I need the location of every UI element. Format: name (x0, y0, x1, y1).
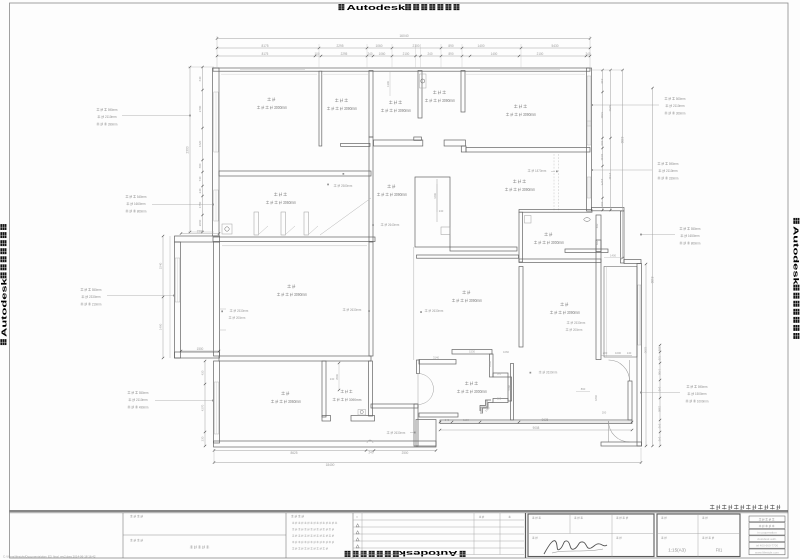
svg-text:1000mm: 1000mm (697, 399, 709, 403)
extension lines above wall at bath2 (415, 44, 417, 68)
dim right lower x646 (645, 264, 647, 446)
room label: 客厅 (287, 284, 295, 288)
window annotation 窗高2110mm (97, 108, 118, 112)
svg-text:210mm: 210mm (92, 302, 102, 306)
svg-text:C:/Users/lifestyle/Documents/p: C:/Users/lifestyle/Documents/plan_E3_fin… (3, 555, 96, 559)
dim extension verticals top (318, 44, 320, 68)
svg-text:5430: 5430 (551, 44, 558, 48)
scale value (668, 548, 686, 553)
svg-text:240: 240 (330, 377, 335, 381)
svg-text:800mm: 800mm (137, 209, 147, 213)
svg-text:3000mm: 3000mm (474, 389, 488, 394)
wall: master bedroom / cloakroom1 divider (319, 71, 322, 146)
svg-text:1060: 1060 (503, 350, 509, 354)
svg-text:550mm: 550mm (691, 227, 701, 231)
svg-text:1660mm: 1660mm (134, 202, 146, 206)
dim bottom right section chain (440, 421, 632, 423)
svg-text:3090mm: 3090mm (523, 112, 537, 117)
svg-text:3090mm: 3090mm (349, 397, 362, 402)
svg-text:3500: 3500 (335, 374, 339, 380)
svg-text:890: 890 (448, 44, 453, 48)
title block top border (10, 510, 789, 512)
svg-text:2100: 2100 (412, 44, 419, 48)
room label: 主卧 (267, 97, 275, 101)
design notes header (291, 515, 304, 518)
svg-text:8100: 8100 (650, 277, 654, 284)
room label: 走廊 (387, 184, 395, 188)
room label: 电梯厅 (465, 381, 478, 385)
svg-text:1530: 1530 (469, 349, 475, 353)
wall: chinese kitchen right (596, 215, 601, 252)
svg-text:800mm: 800mm (691, 241, 701, 245)
stall door diagonal 1 (259, 226, 268, 234)
svg-text:400: 400 (595, 223, 599, 228)
dim left guest bed chain (204, 361, 206, 446)
svg-text:2295: 2295 (336, 44, 343, 48)
svg-text:3000mm: 3000mm (274, 105, 288, 110)
beam label 梁高1870mm (528, 169, 547, 173)
svg-text:1500: 1500 (197, 347, 204, 351)
svg-text:2530mm: 2530mm (237, 309, 248, 313)
svg-text:440: 440 (600, 79, 604, 84)
dim bottom right 9008 (440, 429, 632, 431)
wall: balcony left exterior (175, 242, 181, 358)
bottom wall arc bump (367, 440, 373, 443)
window annotation 窗高2110mm (128, 391, 149, 395)
svg-text:2360: 2360 (658, 406, 662, 412)
design notes paragraph (292, 522, 337, 524)
window annotation 窗高1650mm (680, 227, 701, 231)
door arc: bottom right exit (609, 421, 630, 442)
svg-text:1650mm: 1650mm (688, 234, 700, 238)
window: top wall daughter room (480, 69, 560, 71)
wall: living room left exterior (214, 242, 220, 356)
wall: bath3 bottom segment (351, 416, 375, 422)
svg-text:3090mm: 3090mm (442, 98, 456, 103)
wall: zigzag vertical 1 (490, 354, 494, 377)
title block cell: design unit (130, 515, 143, 518)
dim right lower x652 8100 (652, 88, 654, 446)
window: left wall upper (214, 92, 218, 152)
svg-text:490mm: 490mm (139, 405, 149, 409)
beam label 梁高2630mm (425, 309, 444, 313)
wall: balcony top (175, 236, 220, 242)
door label balcony (230, 309, 249, 313)
svg-text:2330mm: 2330mm (89, 295, 101, 299)
svg-text:890: 890 (449, 52, 454, 56)
dim chain top B (217, 55, 590, 57)
svg-text:3300: 3300 (600, 112, 604, 119)
svg-text:1040: 1040 (600, 154, 604, 161)
wall: bath3 right (369, 361, 373, 416)
svg-text:1750: 1750 (198, 202, 202, 209)
watermark top: Autodesk educational banner (338, 3, 459, 12)
svg-text:1000: 1000 (615, 351, 621, 355)
door arc: west kitchen east door (609, 360, 630, 381)
wall: kitchen lower divider to dining (519, 259, 601, 263)
svg-text:200: 200 (602, 411, 607, 415)
beam label 梁高2640mm (381, 223, 400, 227)
dim interior shaft 4200 (436, 184, 438, 212)
svg-text:240: 240 (368, 52, 373, 56)
svg-text:400: 400 (600, 202, 604, 207)
wall: dining top (417, 255, 519, 258)
wall: zigzag horizontal right (493, 373, 508, 377)
dim chain top A (217, 47, 590, 49)
title block divider 2 (285, 513, 287, 558)
wall: guest/bath3 divider (322, 361, 326, 417)
svg-text:tel 400-660-7700: tel 400-660-7700 (756, 544, 779, 548)
tiny plot stamp bottom left (3, 555, 96, 559)
svg-text:8175: 8175 (262, 52, 269, 56)
dim right chain x610 (610, 70, 612, 210)
wall: guest bedroom left exterior (214, 361, 220, 443)
wall: elevator hall left (414, 404, 418, 446)
title block divider 1 (122, 513, 124, 558)
svg-text:540mm: 540mm (137, 195, 147, 199)
svg-text:2110mm: 2110mm (673, 104, 685, 108)
svg-text:6300: 6300 (620, 137, 624, 144)
svg-text:550mm: 550mm (92, 288, 102, 292)
beam label 梁高2630mm (343, 308, 362, 312)
stall door diagonal 2 (309, 226, 318, 234)
room label: 衣帽间 (433, 90, 446, 94)
wall: west kitchen right wall & door (596, 240, 601, 360)
svg-text:4270: 4270 (201, 405, 205, 412)
svg-text:1300: 1300 (386, 81, 390, 87)
svg-text:240: 240 (586, 52, 591, 56)
dim interior bath2 vertical (389, 72, 391, 96)
wall: balcony bottom (175, 352, 220, 358)
bay terrace strip outline (604, 267, 637, 358)
sheet number value (716, 548, 723, 553)
copyright text above title block (710, 505, 780, 510)
svg-text:3060mm: 3060mm (288, 399, 302, 404)
wall: dining bottom zigzag 1 (419, 360, 456, 365)
dim balcony width 1500 top (181, 233, 219, 235)
dim bottom chain left section (214, 450, 436, 452)
svg-text:2500: 2500 (402, 451, 409, 455)
svg-text:330mm: 330mm (669, 176, 679, 180)
svg-text:3090mm: 3090mm (394, 192, 408, 197)
wall: bath3 hook bottom-left (322, 416, 331, 422)
dim interior 3500 bath3 (338, 363, 340, 390)
svg-text:2700: 2700 (198, 106, 202, 113)
svg-text:3090mm: 3090mm (567, 310, 581, 315)
svg-text:1:15(A3): 1:15(A3) (668, 548, 686, 553)
wall: far right exterior lower (637, 264, 642, 447)
svg-text:200mm: 200mm (573, 328, 582, 332)
svg-text:2110mm: 2110mm (666, 169, 678, 173)
svg-text:2295: 2295 (341, 52, 348, 56)
svg-text:1400: 1400 (658, 369, 662, 375)
svg-text:1100: 1100 (463, 418, 469, 422)
svg-text:2630mm: 2630mm (546, 371, 557, 375)
right info stack boxes (749, 516, 785, 522)
svg-text:240: 240 (428, 52, 433, 56)
svg-text:1460: 1460 (159, 324, 163, 331)
window annotation 窗高2110mm (658, 162, 679, 166)
wall: elevator hall bottom (419, 413, 458, 417)
svg-text:540: 540 (658, 437, 662, 442)
svg-text:230: 230 (201, 436, 205, 441)
svg-text:Autodesk: Autodesk (792, 226, 800, 286)
svg-text:18400: 18400 (326, 463, 335, 467)
door label west kitchen (567, 321, 586, 325)
room label: 卫生间 (341, 390, 353, 393)
svg-text:4200: 4200 (433, 193, 437, 199)
title block drawing name (190, 545, 209, 548)
svg-text:2630mm: 2630mm (394, 431, 405, 435)
svg-text:Autodesk: Autodesk (398, 549, 458, 558)
svg-text:1400: 1400 (610, 253, 616, 257)
wall: top exterior (213, 68, 590, 71)
svg-text:3180: 3180 (508, 385, 512, 391)
wall: dining zigzag upper (452, 350, 492, 355)
dim bottom overall 18400 (214, 462, 641, 464)
fixture: kitchen circle (584, 218, 590, 222)
svg-text:500mm: 500mm (676, 97, 686, 101)
svg-text:740: 740 (198, 176, 202, 181)
wall: corridor bottom segment B (444, 140, 465, 146)
wall: cloakroom2 bottom segment A (374, 140, 423, 146)
wall: cloakroom1 bottom (341, 143, 370, 146)
window: guest bedroom left (214, 382, 218, 434)
svg-text:2100: 2100 (403, 52, 410, 56)
wall: right exterior upper (587, 68, 592, 211)
svg-text:in cooperation: in cooperation (757, 531, 777, 535)
wall: zigzag bottom步 (493, 399, 508, 403)
revision table (353, 519, 524, 521)
window annotation 窗高1660mm (126, 195, 147, 199)
wall: bottom-right lower wall (601, 442, 642, 446)
wall: bay step horizontal (624, 260, 641, 264)
svg-text:590mm: 590mm (698, 385, 708, 389)
svg-text:1060: 1060 (375, 44, 382, 48)
svg-text:2630mm: 2630mm (432, 309, 443, 313)
dim west kitchen 890 (576, 391, 590, 393)
dim small 200 1000 140 labels (601, 355, 632, 357)
window annotation 窗高1500mm (687, 385, 708, 389)
svg-text:200mm: 200mm (236, 316, 245, 320)
wall: bottom exterior left section (214, 441, 437, 447)
svg-text:1870mm: 1870mm (535, 169, 546, 173)
window: balcony left wall (175, 258, 180, 302)
wall: lounge bottom west part (450, 247, 517, 251)
svg-text:420: 420 (201, 370, 205, 375)
wall: right section bottom (440, 420, 632, 424)
svg-text:1500: 1500 (197, 230, 204, 234)
toilet stall partition 3 (304, 212, 309, 235)
svg-text:3090mm: 3090mm (398, 108, 412, 113)
wall: dining right divider (519, 267, 523, 348)
svg-text:1840: 1840 (594, 395, 598, 401)
svg-text:www.lifestyle.com: www.lifestyle.com (755, 550, 780, 554)
svg-text:890: 890 (581, 387, 586, 391)
wall: cloakroom2 / daughter room divider (461, 71, 465, 113)
svg-text:590mm: 590mm (108, 108, 118, 112)
wall: corridor left (below bath2) (369, 137, 373, 242)
svg-text:390mm: 390mm (108, 122, 118, 126)
title block thick box divider (525, 513, 527, 558)
svg-text:240: 240 (658, 424, 662, 429)
svg-text:F01: F01 (716, 548, 723, 553)
wall: westkitchen left lower vertical (508, 377, 512, 401)
dim left lower balcony verticals (162, 236, 164, 358)
svg-text:240: 240 (445, 418, 450, 422)
elevator double door arcs (418, 374, 434, 390)
dim 600 in kitchen upper (595, 223, 599, 228)
svg-text:3090mm: 3090mm (522, 187, 536, 192)
room label: 休闲室 (513, 179, 526, 183)
window: right wall 1 (587, 76, 591, 126)
wall: bay east upper vertical (621, 211, 625, 263)
toilet stall partition 2 (281, 212, 286, 235)
wall: left exterior upper (213, 68, 220, 236)
ceiling line below top wall (221, 73, 317, 75)
svg-text:2630mm: 2630mm (350, 308, 361, 312)
room label: 餐厅 (462, 290, 470, 294)
shaft box below elevator hall (416, 420, 436, 447)
svg-text:240: 240 (198, 188, 202, 193)
wall: cloakroom1 / bath2 divider (369, 71, 373, 138)
fixture: kitchen counter box (525, 216, 532, 224)
wall: stub above elevator door (417, 360, 420, 374)
wall: step stair zigzag (483, 403, 494, 414)
dim kitchen bay 1400 (604, 257, 623, 259)
signature box (528, 514, 654, 557)
dim left overall 2300 (189, 67, 191, 232)
svg-text:2300: 2300 (186, 146, 190, 153)
svg-text:2740: 2740 (608, 173, 612, 180)
title block divider 3 (352, 513, 354, 558)
window: top wall master bedroom (240, 69, 305, 71)
watermark right (rotated) (792, 218, 800, 339)
svg-text:140: 140 (627, 351, 632, 355)
beam label 梁高2630mm (387, 431, 406, 435)
bay glazing line (606, 267, 608, 358)
svg-text:3250: 3250 (608, 105, 612, 112)
dim left chain (202, 67, 204, 232)
svg-text:Autodesk auth.: Autodesk auth. (757, 537, 777, 541)
room label: 西厨 (560, 302, 568, 306)
watermark bottom (inverted) (345, 549, 466, 558)
svg-text:1400: 1400 (491, 52, 498, 56)
diagonal line bath1 to corridor (320, 198, 371, 235)
svg-text:200: 200 (603, 351, 608, 355)
svg-text:590mm: 590mm (669, 162, 679, 166)
fixture: basin in bath2 (420, 74, 427, 88)
window: far right wall (638, 285, 641, 345)
toilet stall partition 1 (254, 212, 259, 235)
window annotation 窗高2330mm (81, 288, 102, 292)
svg-text:720: 720 (658, 356, 662, 361)
svg-text:3090mm: 3090mm (294, 292, 308, 297)
svg-text:3090mm: 3090mm (469, 298, 483, 303)
svg-text:1540: 1540 (159, 263, 163, 270)
room label: 卫生间 (389, 100, 402, 104)
svg-text:1400: 1400 (477, 44, 484, 48)
beam label 梁高2630mm (539, 371, 558, 375)
window: right wall 3 (587, 177, 591, 198)
svg-text:2580mm: 2580mm (341, 184, 352, 188)
svg-text:240: 240 (439, 209, 444, 213)
svg-text:8625: 8625 (290, 451, 297, 455)
svg-text:Autodesk: Autodesk (0, 277, 8, 337)
wall: chinese kitchen left (519, 212, 523, 262)
dim balcony width 1500 bottom (181, 350, 219, 352)
beam dot on master bottom wall (343, 173, 345, 175)
svg-text:600: 600 (497, 372, 502, 376)
wall: SW corner west kitchen steps (481, 400, 487, 414)
wall: living room bottom / guest bed top (219, 356, 371, 361)
svg-text:1240: 1240 (488, 361, 492, 367)
scale box (657, 514, 740, 557)
wall: west kitchen left wall upper (511, 364, 514, 421)
beam label 梁高2580mm (334, 184, 353, 188)
wall: step down to daughter wall (461, 146, 466, 152)
svg-text:300: 300 (198, 163, 202, 168)
watermark left (rotated) (0, 224, 8, 345)
wall: bath1 bottom / living top exterior band (213, 237, 375, 242)
svg-text:1320: 1320 (198, 141, 202, 148)
wall: chinese kitchen bottom (565, 249, 608, 253)
room label: 中厨 (544, 232, 552, 236)
signature squiggle (544, 541, 607, 554)
wall: duct shaft box (415, 177, 450, 247)
svg-text:2110mm: 2110mm (105, 115, 117, 119)
svg-text:3000mm: 3000mm (551, 240, 565, 245)
beam dashed line in lounge (553, 154, 555, 211)
svg-text:3060mm: 3060mm (283, 200, 297, 205)
svg-text:550mm: 550mm (139, 391, 149, 395)
dim overall top line (217, 38, 590, 40)
svg-text:V: V (356, 515, 358, 519)
svg-text:540: 540 (658, 387, 662, 392)
svg-text:Autodesk: Autodesk (347, 3, 407, 12)
wall notch above segment A (414, 137, 422, 140)
hallway-dining boundary line (413, 247, 415, 360)
bath1 sink counter (222, 224, 232, 234)
svg-text:2110mm: 2110mm (136, 398, 148, 402)
wall: lounge right-top jog to kitchen (592, 208, 625, 211)
svg-text:9008: 9008 (533, 426, 540, 430)
svg-text:240: 240 (369, 451, 374, 455)
svg-text:2530mm: 2530mm (574, 321, 585, 325)
svg-text:2175: 2175 (600, 179, 604, 186)
wall: living room right (369, 242, 373, 357)
wall: east wall below door (628, 381, 632, 420)
svg-text:16040: 16040 (399, 34, 408, 38)
wall: chinese kitchen top (519, 210, 592, 213)
svg-text:3140: 3140 (433, 356, 439, 360)
dim right chain x602 (602, 70, 604, 210)
svg-text:2640mm: 2640mm (388, 223, 399, 227)
shaft inner line (436, 179, 438, 222)
svg-text:3090mm: 3090mm (344, 106, 358, 111)
svg-text:1060: 1060 (379, 52, 386, 56)
svg-text:400: 400 (600, 141, 604, 146)
window: right wall 2 (587, 121, 591, 145)
dim right overall x622 (622, 70, 624, 258)
room label: 衣帽间 (335, 98, 348, 102)
wall: master bedroom bottom (219, 171, 371, 176)
fixture: bath3 wc (358, 410, 366, 416)
svg-text:6200: 6200 (644, 347, 648, 354)
room label: 女儿房 (514, 104, 527, 108)
room label: 客卧 (281, 391, 289, 395)
wall: bath2 / cloakroom2 divider (418, 71, 422, 119)
